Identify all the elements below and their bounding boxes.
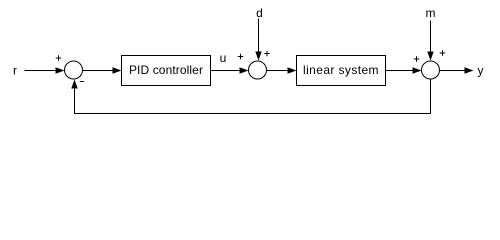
wire m down to S3 (430, 21, 432, 53)
svg-text:y: y (478, 64, 484, 78)
plus sign at S3 left input (414, 56, 420, 62)
svg-text:u: u (220, 51, 227, 65)
summing junction S3 (422, 61, 440, 79)
minus sign at S1 feedback input (80, 81, 85, 83)
plus sign at S2 top input (264, 51, 270, 57)
feedback wire from S3 bottom down, left, and up to S1 (75, 80, 431, 114)
plus sign at S2 left input (238, 54, 244, 60)
arrowhead into S2 (240, 67, 249, 73)
svg-text:m: m (426, 6, 436, 20)
arrowhead into linear system (288, 67, 297, 73)
arrowhead of m into S3 (427, 52, 433, 61)
wire linear system to summing junction S3 (386, 70, 414, 72)
plus sign at S1 input (56, 55, 62, 61)
arrowhead into S3 (413, 67, 422, 73)
arrowhead toward y (465, 67, 474, 73)
svg-text:d: d (256, 6, 263, 20)
wire S3 to y (440, 70, 466, 72)
svg-text:linear system: linear system (303, 63, 379, 77)
wire S2 to linear system (267, 70, 289, 72)
wire d down to S2 (258, 19, 260, 53)
block linear system (297, 56, 386, 86)
arrowhead of d into S2 (255, 52, 261, 61)
arrowhead into S1 (56, 67, 65, 73)
block PID controller (122, 56, 211, 86)
wire r to summing junction S1 (25, 70, 57, 72)
svg-text:PID controller: PID controller (129, 63, 203, 77)
plus sign at S3 top input (440, 50, 446, 56)
wire S1 to PID controller (83, 70, 114, 72)
arrowhead of feedback into S1 bottom (71, 80, 77, 89)
wire PID controller to summing junction S2 (211, 70, 241, 72)
arrowhead into PID controller (113, 67, 122, 73)
summing junction S2 (249, 61, 267, 79)
svg-text:r: r (13, 64, 17, 78)
summing junction S1 (65, 61, 83, 79)
